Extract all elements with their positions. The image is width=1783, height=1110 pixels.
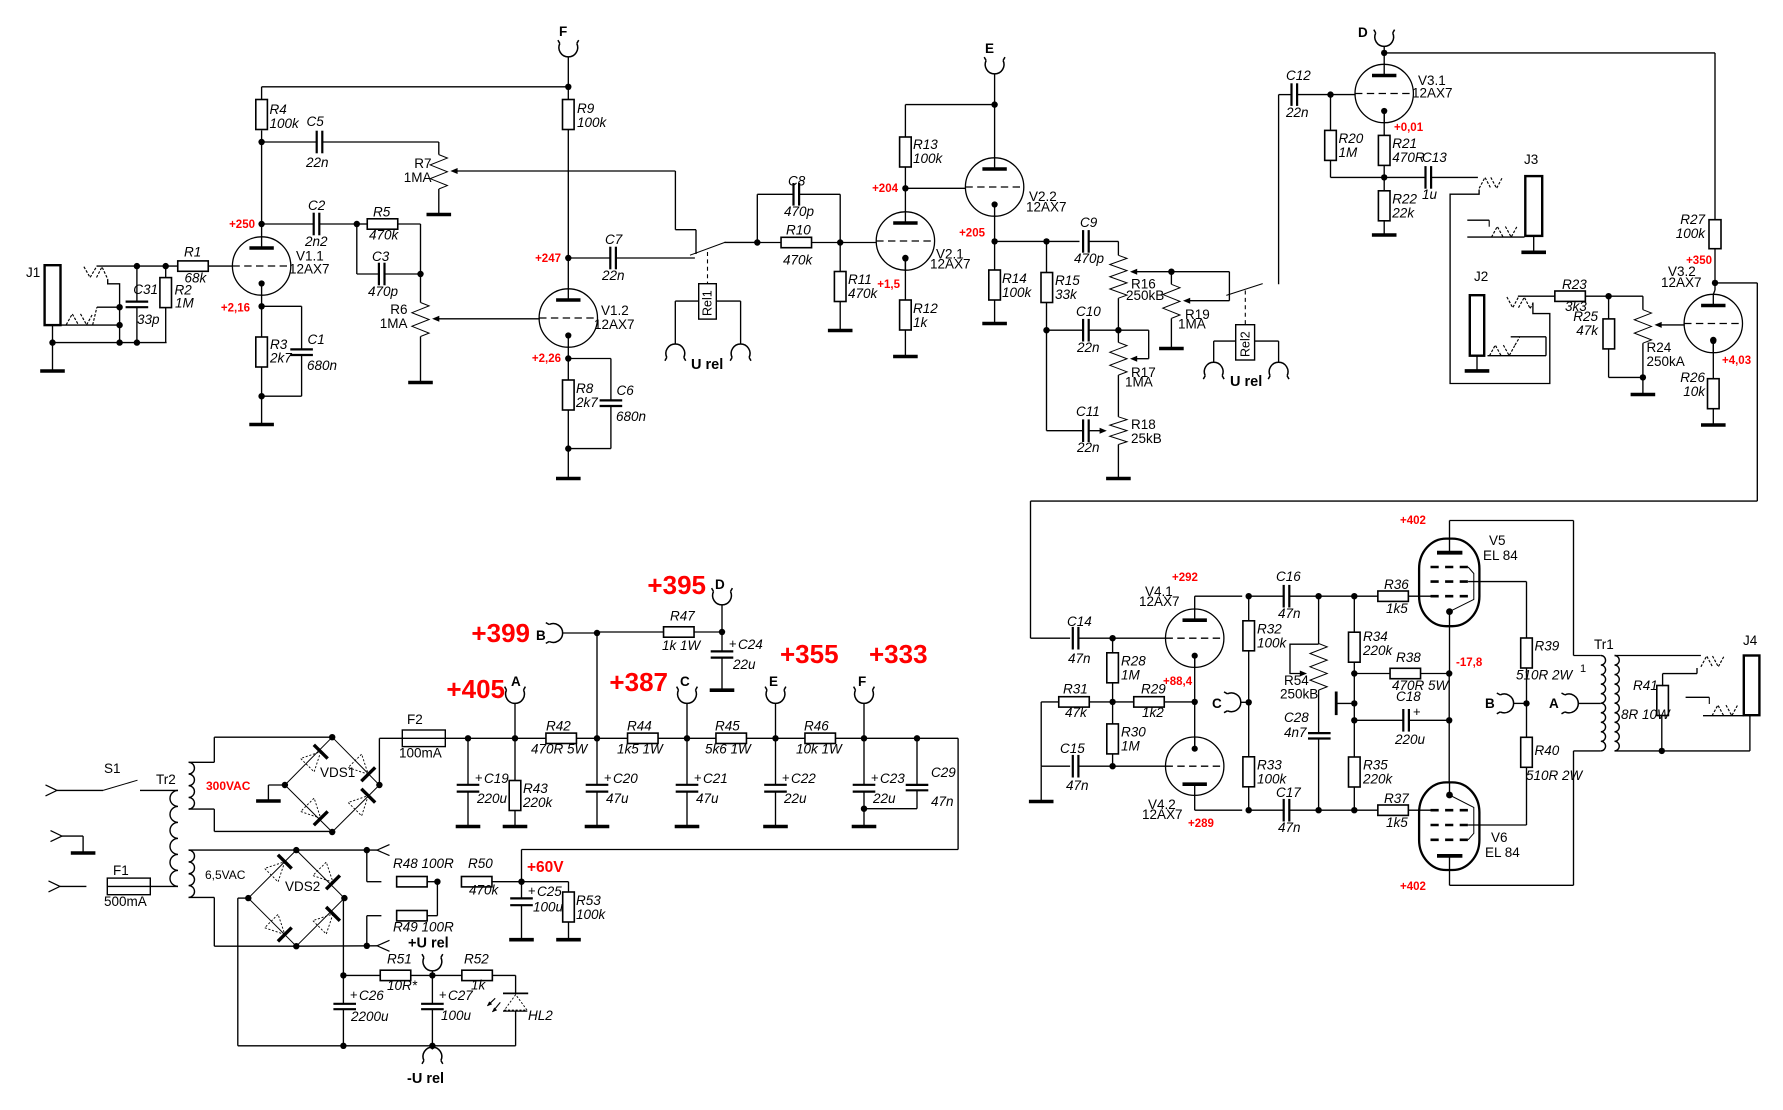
svg-text:680n: 680n [616, 409, 646, 424]
node V3.1 grid [1327, 91, 1333, 97]
svg-text:47n: 47n [1068, 651, 1091, 666]
svg-text:+U rel: +U rel [408, 936, 449, 952]
rectifier bridge VDS2 [248, 850, 344, 946]
wire grid to V3.1 [1331, 94, 1356, 96]
node R33 bottom [1246, 807, 1252, 813]
svg-text:+: + [1413, 704, 1421, 719]
svg-text:12AX7: 12AX7 [1139, 594, 1180, 609]
node C rail [684, 735, 690, 741]
node wiper junction [1168, 269, 1174, 275]
wire V5 anode to Tr1 [1450, 521, 1601, 656]
relay coil Rel1 [699, 284, 717, 319]
wire D to R47 [721, 605, 723, 652]
svg-text:R46: R46 [804, 719, 829, 734]
svg-text:1M: 1M [1339, 145, 1359, 160]
resistor R10 [757, 223, 876, 268]
svg-text:C18: C18 [1396, 689, 1421, 704]
svg-text:47u: 47u [696, 791, 719, 806]
wire V4.1 anode to row [1195, 596, 1243, 609]
svg-text:22u: 22u [872, 791, 896, 806]
svg-text:R39: R39 [1535, 639, 1560, 654]
svg-text:47k: 47k [1065, 705, 1088, 720]
wire A to Tr1 tap [1578, 702, 1601, 704]
svg-text:+355: +355 [780, 639, 839, 669]
node A rail [512, 735, 518, 741]
svg-text:Rel2: Rel2 [1239, 331, 1253, 357]
node R38 left [1351, 670, 1357, 676]
wire Tr1 sec bottom [1615, 715, 1750, 751]
svg-text:47k: 47k [1576, 323, 1599, 338]
svg-text:1k5: 1k5 [1386, 815, 1408, 830]
wire R6 wiper to V1.2 grid [435, 318, 540, 320]
svg-text:R14: R14 [1002, 271, 1027, 286]
resistor R31 [1041, 682, 1112, 721]
svg-text:R37: R37 [1384, 791, 1409, 806]
resistor R9 [563, 100, 608, 290]
wire cathode to V6 [1448, 720, 1450, 782]
svg-text:+205: +205 [959, 228, 986, 240]
ground [1465, 369, 1490, 373]
svg-text:C8: C8 [788, 174, 806, 189]
grid tap bar [1336, 692, 1354, 716]
svg-text:1MA: 1MA [404, 170, 432, 185]
node C14 out [1109, 635, 1115, 641]
node R32 R33 mid [1246, 699, 1252, 705]
svg-text:C23: C23 [880, 771, 905, 786]
svg-text:1k: 1k [913, 315, 929, 330]
node R28 bottom [1109, 699, 1115, 705]
svg-text:F: F [559, 24, 567, 39]
wire J3 sleeve [1533, 236, 1535, 251]
wire C17 to R37 [1319, 809, 1378, 811]
capacitor C31 [126, 266, 160, 343]
label +205 [959, 228, 986, 240]
svg-text:V6: V6 [1491, 830, 1508, 845]
resistor R34 [1349, 596, 1394, 703]
svg-text:R31: R31 [1063, 682, 1088, 697]
fuse F2 [399, 712, 445, 761]
svg-text:22u: 22u [783, 791, 807, 806]
ground [1159, 347, 1184, 351]
node +250 anode [258, 221, 264, 227]
wire V6 g2 to R40 [1468, 767, 1526, 825]
ground [1701, 423, 1726, 427]
resistor R35 [1349, 703, 1394, 810]
svg-text:100mA: 100mA [399, 746, 442, 761]
node C29 rail [914, 735, 920, 741]
svg-text:A: A [511, 674, 521, 689]
node VDS2 left [245, 895, 251, 901]
node V2.2 cathode [991, 238, 997, 244]
svg-text:C9: C9 [1080, 215, 1098, 230]
node R3 bottom [258, 393, 264, 399]
svg-text:R23: R23 [1562, 277, 1587, 292]
terminal E [984, 41, 1005, 74]
svg-text:R9: R9 [577, 101, 595, 116]
triode V3.2 [1661, 264, 1743, 353]
label +333 [869, 639, 928, 669]
svg-text:220k: 220k [1362, 772, 1394, 787]
svg-text:R35: R35 [1363, 758, 1388, 773]
wire Rel2 left terminal [1214, 341, 1236, 362]
svg-text:250kB: 250kB [1280, 687, 1318, 702]
capacitor C7 [568, 232, 695, 283]
node B row [594, 630, 600, 636]
node R4 bottom [258, 139, 264, 145]
potentiometer R24 [1634, 310, 1661, 393]
jack J4 [1743, 633, 1759, 715]
wire C15 left to ground [1040, 766, 1042, 800]
node C31 bottom [134, 339, 140, 345]
svg-text:1: 1 [1580, 663, 1586, 675]
wire F down [863, 703, 865, 738]
svg-text:R10: R10 [786, 223, 811, 238]
svg-text:C3: C3 [372, 249, 390, 264]
svg-text:100k: 100k [1676, 226, 1707, 241]
svg-text:R50: R50 [468, 856, 493, 871]
wire V4.1 cathode down [1194, 655, 1196, 702]
svg-text:1k5: 1k5 [1386, 601, 1408, 616]
resistor R51 [343, 952, 432, 994]
svg-text:+: + [871, 770, 879, 785]
svg-text:C31: C31 [133, 282, 158, 297]
wire V6 anode to Tr1 [1450, 751, 1601, 885]
node R35 bottom [1351, 807, 1357, 813]
node V3.2 cathode [1710, 337, 1716, 343]
svg-text:1k2: 1k2 [1142, 705, 1164, 720]
triode V2.2 [965, 157, 1066, 216]
svg-text:C20: C20 [613, 771, 638, 786]
potentiometer R6 [380, 302, 440, 337]
svg-text:1MA: 1MA [1125, 375, 1153, 390]
wire C to R32 column [1241, 701, 1249, 703]
resistor R2 [160, 266, 195, 343]
terminal B [536, 623, 563, 644]
svg-text:VDS1: VDS1 [320, 765, 355, 780]
svg-text:S1: S1 [104, 761, 121, 776]
capacitor C12 [1279, 68, 1331, 120]
svg-text:8R 10W: 8R 10W [1621, 707, 1671, 722]
svg-text:C12: C12 [1286, 68, 1311, 83]
svg-text:1MA: 1MA [1178, 317, 1206, 332]
rectifier bridge VDS1 [285, 737, 380, 832]
svg-text:100k: 100k [576, 907, 607, 922]
node VDS1 right [376, 782, 382, 788]
terminal -U rel [407, 1046, 444, 1087]
node heater bottom tap [364, 943, 370, 949]
svg-text:C25: C25 [537, 884, 562, 899]
potentiometer R18 [1100, 417, 1162, 477]
node C18 left [1351, 717, 1357, 723]
svg-text:+: + [350, 987, 358, 1002]
svg-text:470p: 470p [1074, 251, 1105, 266]
svg-text:R22: R22 [1392, 192, 1417, 207]
label R3 2k7 [269, 337, 292, 366]
ground [1106, 477, 1131, 481]
resistor R37 [1378, 791, 1431, 830]
ground [1372, 233, 1397, 237]
svg-text:B: B [536, 628, 546, 643]
svg-text:+: + [439, 987, 447, 1002]
svg-text:+0,01: +0,01 [1394, 122, 1424, 134]
wire C14 to V4.1 grid [1113, 637, 1167, 639]
svg-text:22n: 22n [1076, 440, 1100, 455]
resistor R49 [367, 882, 454, 946]
label R24 250kA [1647, 340, 1685, 369]
potentiometer R7 [404, 155, 458, 189]
pentode V5 [1419, 533, 1518, 627]
resistor R46 [796, 719, 917, 757]
capacitor C25 [510, 882, 563, 938]
svg-text:+60V: +60V [527, 859, 564, 876]
capacitor C11 [1047, 404, 1102, 455]
svg-text:22n: 22n [1076, 340, 1100, 355]
svg-text:+292: +292 [1172, 572, 1198, 584]
resistor R25 [1573, 296, 1643, 377]
capacitor C21 [676, 738, 728, 825]
wire VDS1 left to ground [268, 785, 285, 800]
svg-text:Tr1: Tr1 [1594, 637, 1614, 652]
terminal U rel left [665, 344, 686, 361]
svg-text:R52: R52 [464, 952, 489, 967]
capacitor C15 [1041, 741, 1112, 793]
svg-text:47n: 47n [1278, 606, 1301, 621]
svg-text:+: + [782, 770, 790, 785]
transformer Tr1 secondary [1615, 656, 1620, 751]
resistor R14 [989, 270, 1001, 322]
svg-text:510R 2W: 510R 2W [1526, 768, 1584, 783]
wire R13 top to E rail [905, 104, 994, 106]
label +88,4 [1163, 676, 1193, 688]
mains input arrows [46, 785, 63, 892]
terminal C psu [677, 674, 698, 703]
svg-text:R1: R1 [184, 245, 201, 260]
capacitor C14 [1067, 614, 1113, 666]
node R32 top [1246, 593, 1252, 599]
svg-text:C24: C24 [738, 637, 763, 652]
wire VDS2 plus down [343, 898, 344, 975]
svg-text:R43: R43 [523, 781, 548, 796]
resistor R44 [617, 719, 716, 757]
wire Rel1 left terminal [675, 301, 698, 344]
resistor R28 [1107, 638, 1146, 702]
svg-text:D: D [1358, 25, 1368, 40]
svg-text:R6: R6 [390, 302, 407, 317]
wire V2.1 anode up [904, 188, 906, 212]
capacitor C8 [757, 174, 840, 243]
label R12 1k [913, 301, 938, 330]
svg-text:R33: R33 [1257, 758, 1282, 773]
resistor R23 [1555, 277, 1609, 314]
svg-text:+399: +399 [471, 618, 530, 648]
ground [249, 423, 274, 427]
wire J1 ring row [61, 324, 120, 326]
label +387 [609, 667, 668, 697]
input jack J1 [26, 265, 61, 325]
svg-text:C28: C28 [1284, 710, 1309, 725]
label R11 470k [848, 272, 879, 301]
resistor R12 [900, 258, 912, 355]
node R15 top [1043, 238, 1049, 244]
wire Tr1 sec top [1615, 655, 1701, 657]
wire R6 bottom [420, 337, 422, 382]
jack J1 tip contact [84, 267, 120, 343]
svg-text:250kB: 250kB [1126, 288, 1164, 303]
svg-text:12AX7: 12AX7 [1142, 807, 1183, 822]
svg-text:C17: C17 [1276, 785, 1301, 800]
svg-text:510R 2W: 510R 2W [1516, 668, 1574, 683]
capacitor C20 [586, 738, 639, 825]
svg-text:C: C [1212, 696, 1222, 711]
relay Rel2 dashed link [1244, 291, 1246, 325]
wire C5 to R7 [438, 142, 440, 155]
ground [1029, 800, 1054, 804]
label +350 [1686, 255, 1712, 267]
svg-text:470k: 470k [783, 253, 814, 268]
wire C16 to R34 R36 [1319, 595, 1378, 597]
svg-text:+387: +387 [609, 667, 668, 697]
ground [893, 355, 918, 359]
node mid tap [1351, 700, 1357, 706]
relay contact Rel2 switch [1226, 95, 1278, 296]
node R41 bottom rail [1659, 748, 1665, 754]
wire C11 column [1046, 330, 1048, 431]
resistor R3 [256, 295, 268, 424]
node +350 [1712, 280, 1718, 286]
wire Rel2 right terminal [1255, 341, 1279, 362]
svg-text:R44: R44 [627, 719, 652, 734]
node ring junction [116, 322, 122, 328]
terminal A amp [1549, 693, 1578, 714]
svg-text:300VAC: 300VAC [206, 779, 251, 793]
svg-text:R12: R12 [913, 301, 938, 316]
svg-text:J3: J3 [1524, 152, 1538, 167]
svg-text:220k: 220k [1362, 643, 1394, 658]
wire heater bottom [296, 945, 377, 947]
svg-text:47n: 47n [1278, 820, 1301, 835]
wire D to R27 [1384, 53, 1715, 220]
svg-text:C5: C5 [307, 114, 325, 129]
node R21 bottom [1381, 174, 1387, 180]
svg-text:1k: 1k [471, 978, 487, 993]
svg-text:47n: 47n [931, 794, 954, 809]
svg-text:+4,03: +4,03 [1722, 355, 1751, 367]
wire E down [775, 703, 777, 738]
resistor R5 [357, 205, 421, 243]
svg-text:R32: R32 [1257, 622, 1282, 637]
triode V4.2 [1142, 737, 1224, 823]
wire F down [567, 57, 569, 100]
label +60V [527, 859, 564, 876]
node R24 bottom [1640, 374, 1646, 380]
svg-text:R47: R47 [670, 609, 695, 624]
svg-text:470k: 470k [848, 286, 879, 301]
wire bottom row [53, 342, 167, 344]
svg-text:220u: 220u [476, 791, 508, 806]
svg-text:+: + [729, 636, 737, 651]
svg-text:J1: J1 [26, 265, 40, 280]
ground [456, 825, 481, 829]
pentode V6 [1419, 782, 1520, 871]
svg-text:E: E [985, 41, 994, 56]
svg-text:250kA: 250kA [1647, 354, 1685, 369]
terminal A [505, 674, 526, 703]
wire R31 left down [1040, 702, 1042, 766]
capacitor C3 [357, 224, 421, 299]
svg-text:+333: +333 [869, 639, 928, 669]
node C26 bottom [340, 1043, 346, 1049]
node V1.2 cathode [565, 355, 571, 361]
node cathode C18 [1446, 717, 1452, 723]
svg-text:R21: R21 [1392, 136, 1417, 151]
node C8 left [754, 239, 760, 245]
label +4,03 [1722, 355, 1751, 367]
svg-text:5k6 1W: 5k6 1W [705, 742, 752, 757]
svg-text:R34: R34 [1363, 629, 1388, 644]
capacitor C18 [1354, 689, 1449, 747]
capacitor C29 [864, 738, 956, 809]
svg-text:R40: R40 [1535, 743, 1560, 758]
svg-text:VDS2: VDS2 [285, 879, 320, 894]
node D [1381, 50, 1387, 56]
capacitor C26 [333, 975, 389, 1045]
ground [556, 938, 581, 942]
node C19 [465, 735, 471, 741]
ground [40, 343, 65, 371]
svg-text:R24: R24 [1647, 340, 1672, 355]
label +0,01 [1394, 122, 1424, 134]
wire B to rail [562, 632, 597, 634]
svg-text:470k: 470k [469, 883, 500, 898]
svg-text:+395: +395 [647, 570, 706, 600]
svg-text:22u: 22u [732, 657, 756, 672]
ground [1521, 251, 1546, 255]
terminal +U rel [408, 936, 449, 971]
svg-text:R28: R28 [1121, 654, 1146, 669]
svg-text:1M: 1M [1121, 668, 1141, 683]
node R34 top [1351, 593, 1357, 599]
wire R24 wiper to V3.2 [1658, 324, 1685, 326]
resistor R27 [1676, 212, 1721, 283]
resistor R52 [432, 952, 515, 993]
label U rel [691, 357, 723, 373]
wire C9 to R16 [1117, 241, 1119, 255]
terminal F psu [854, 674, 875, 703]
wire C10 to R17 wiper [1118, 330, 1148, 359]
node B rail [594, 735, 600, 741]
svg-text:+2,26: +2,26 [532, 353, 561, 365]
fuse F1 [60, 863, 178, 909]
label +289 [1188, 818, 1214, 830]
svg-text:A: A [1549, 696, 1559, 711]
ground [852, 825, 877, 829]
potentiometer R54 [1280, 596, 1327, 701]
node C10 right [1115, 327, 1121, 333]
svg-text:R26: R26 [1680, 370, 1705, 385]
node E rail [772, 735, 778, 741]
ground [763, 825, 788, 829]
wire C down [686, 703, 688, 738]
jack J4 ring contact [1686, 697, 1744, 715]
terminal B amp [1485, 693, 1514, 714]
svg-text:100k: 100k [270, 116, 301, 131]
label +2,26 [532, 353, 561, 365]
wire V2.2 cathode down [994, 216, 996, 270]
relay contact Rel1 switch [690, 242, 757, 255]
svg-text:Tr2: Tr2 [156, 772, 176, 787]
wire V4.2 cathode up [1194, 702, 1196, 750]
svg-text:U rel: U rel [691, 357, 723, 373]
